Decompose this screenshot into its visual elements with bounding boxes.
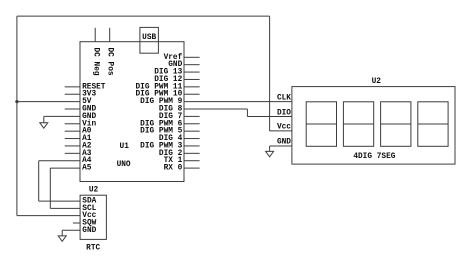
- svg-text:GND: GND: [82, 227, 96, 235]
- svg-text:A5: A5: [82, 165, 92, 173]
- svg-text:DC Pos: DC Pos: [105, 48, 113, 76]
- svg-text:GND: GND: [277, 139, 291, 147]
- svg-text:4DIG 7SEG: 4DIG 7SEG: [353, 153, 395, 161]
- svg-text:DIO: DIO: [277, 109, 291, 117]
- svg-text:UNO: UNO: [117, 161, 131, 169]
- svg-text:U2: U2: [372, 78, 382, 86]
- svg-text:DC Neg: DC Neg: [91, 48, 99, 76]
- svg-text:RTC: RTC: [86, 244, 100, 252]
- svg-text:RX 0: RX 0: [164, 165, 183, 173]
- svg-text:Vcc: Vcc: [277, 124, 291, 132]
- svg-text:U1: U1: [120, 143, 130, 151]
- svg-text:U2: U2: [89, 187, 99, 195]
- svg-text:CLK: CLK: [277, 94, 291, 102]
- svg-text:USB: USB: [142, 34, 156, 42]
